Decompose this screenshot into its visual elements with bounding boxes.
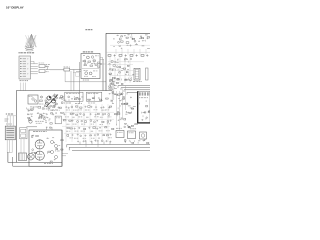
svg-text:10" DISPLAY: 10" DISPLAY — [6, 5, 24, 9]
